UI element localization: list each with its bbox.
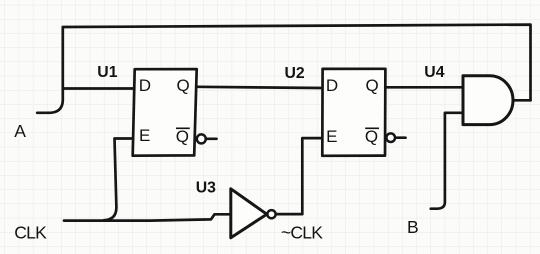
wire U3 output to U2 E [276,138,323,214]
svg-text:D: D [139,76,151,95]
wire U2 Q to U4 input [386,86,463,89]
svg-text:~CLK: ~CLK [281,223,323,243]
wire U2 Qbar stub [395,136,405,139]
wire U4 output stub [513,99,531,102]
D latch U1 body [133,69,197,156]
AND gate U4 body [463,76,513,125]
U2 Qbar bubble [386,133,395,142]
wire node B to U4 lower input [431,113,462,209]
svg-text:E: E [326,127,337,146]
svg-text:U3: U3 [196,180,216,197]
svg-text:Q: Q [177,76,190,95]
svg-text:A: A [14,121,26,141]
svg-text:U4: U4 [424,64,444,81]
wire feedback: U4 output up, across top, down left to node A [37,25,530,113]
svg-text:D: D [326,76,338,95]
svg-text:Q: Q [366,76,379,95]
wire CLK horizontal [64,214,229,220]
wire U1 Qbar stub [206,137,217,140]
wire E of U1 down to CLK line [104,139,134,221]
wire node A to U1 D input [63,87,134,90]
svg-text:B: B [407,217,418,237]
pin Qbar overline of U1 [176,127,190,129]
svg-text:CLK: CLK [14,223,47,243]
svg-text:U2: U2 [285,65,305,82]
svg-text:Q: Q [365,127,378,146]
svg-text:U1: U1 [97,64,117,81]
wire U1 Q to U2 D [197,87,323,88]
U1 Qbar bubble [197,134,206,143]
pin Qbar overline of U2 [365,127,379,129]
D latch U2 body [322,69,385,156]
svg-text:E: E [139,126,150,145]
svg-text:Q: Q [176,127,189,146]
inverter U3 bubble [267,210,275,218]
inverter U3 triangle [231,189,267,238]
